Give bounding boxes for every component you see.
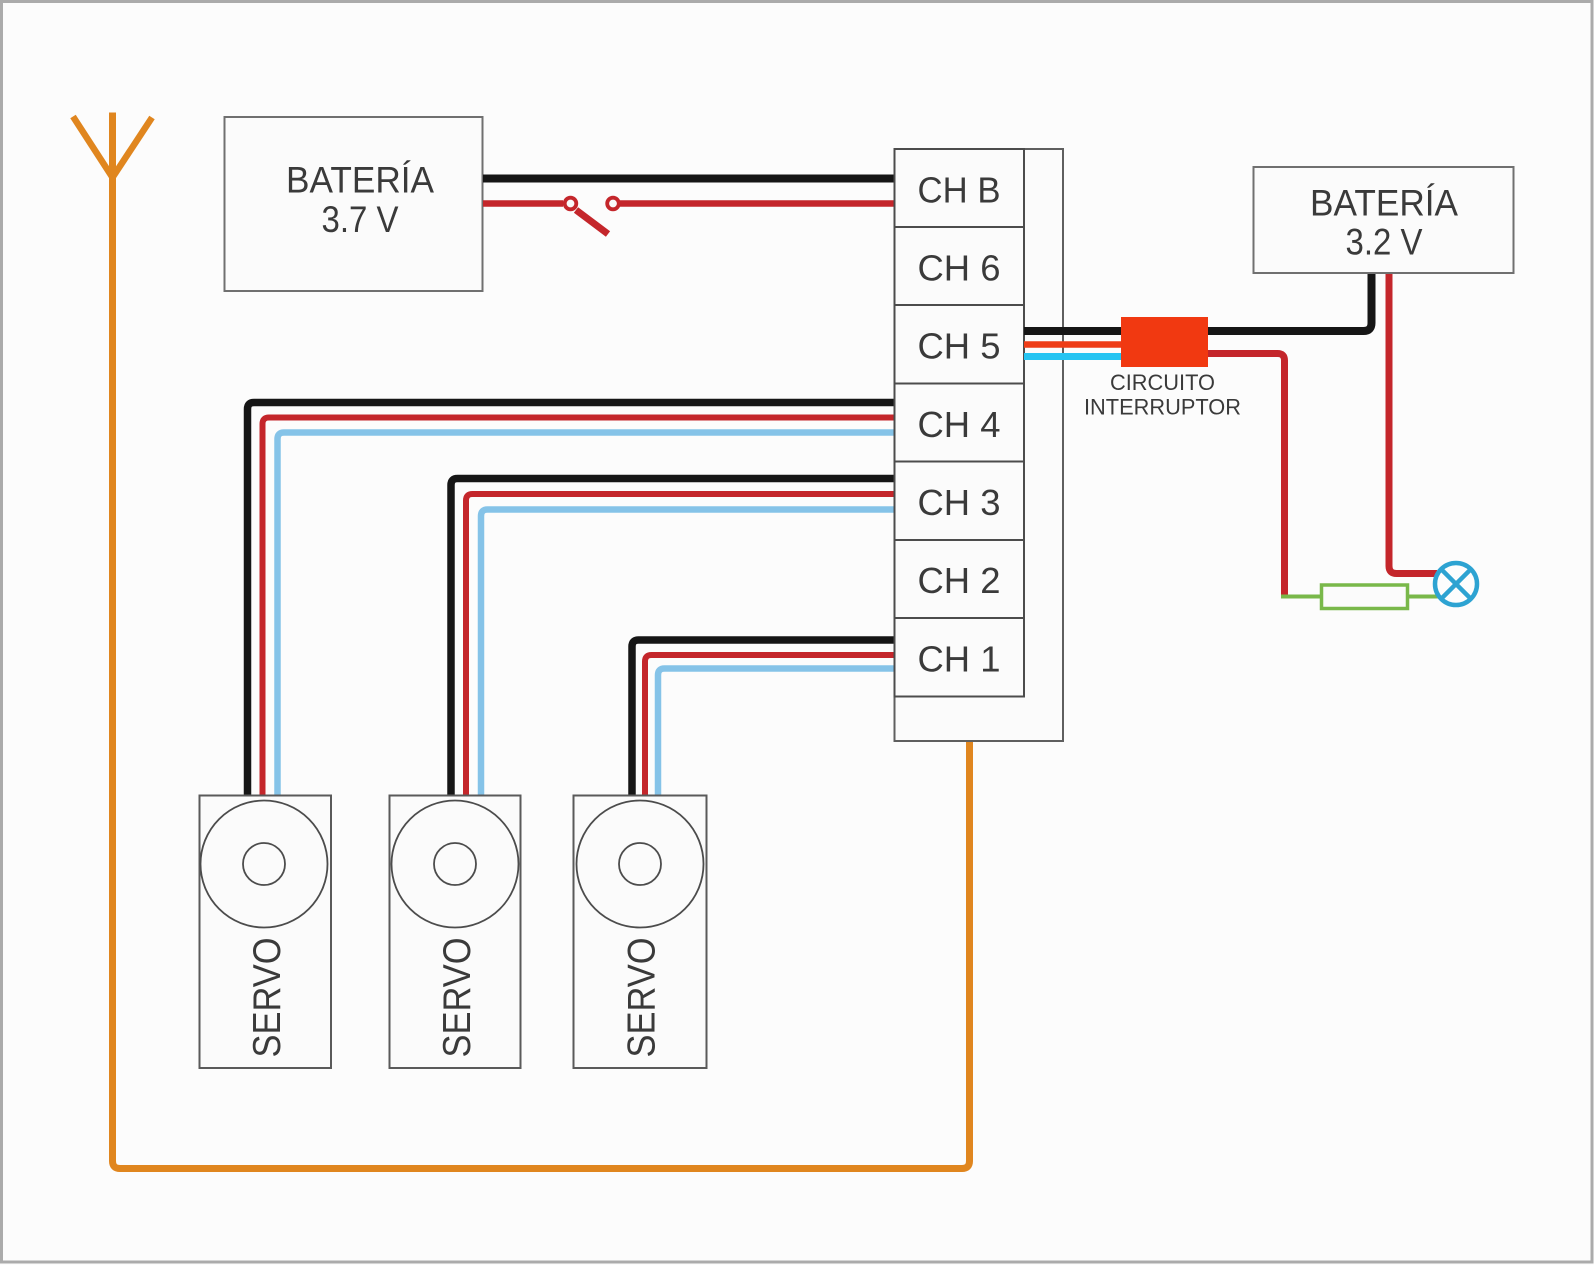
svg-text:SERVO: SERVO — [621, 938, 664, 1058]
wire battery 3.7V positive (red) to switch — [483, 200, 563, 207]
channel CH 5 — [895, 305, 1025, 384]
svg-text:CH 2: CH 2 — [918, 560, 1001, 601]
svg-text:SERVO: SERVO — [246, 938, 289, 1058]
receiver outer box — [895, 149, 1064, 741]
wire circuit breaker out (red) — [1208, 354, 1285, 598]
svg-text:CH 6: CH 6 — [918, 248, 1001, 289]
wire resistor left (green) — [1281, 595, 1322, 599]
wire resistor right (green) — [1408, 595, 1441, 599]
wire servo2 black to CH3 — [451, 479, 894, 800]
svg-text:3.7 V: 3.7 V — [322, 199, 399, 240]
wire CH5 black to battery 3.2V — [1024, 272, 1372, 331]
wire battery 3.2V positive (red) to lamp — [1389, 274, 1437, 574]
svg-text:CH 4: CH 4 — [918, 404, 1001, 445]
channel CH 6 — [895, 227, 1025, 305]
circuit breaker box U1 — [1084, 317, 1241, 420]
lamp L1 — [1435, 563, 1477, 605]
antenna — [73, 117, 152, 178]
svg-text:3.2 V: 3.2 V — [1346, 222, 1423, 263]
svg-text:CH 3: CH 3 — [918, 482, 1001, 523]
battery B1 3.7V box — [225, 117, 483, 291]
svg-text:INTERRUPTOR: INTERRUPTOR — [1084, 395, 1241, 420]
wire servo3 red to CH1 — [645, 655, 894, 799]
wire CH5 red to circuit breaker — [1024, 341, 1123, 348]
wire servo3 blue to CH1 — [658, 669, 894, 800]
svg-text:CH B: CH B — [918, 170, 1001, 211]
wire servo1 black to CH4 — [248, 403, 895, 800]
svg-text:BATERÍA: BATERÍA — [1310, 183, 1458, 224]
resistor R1 — [1322, 585, 1408, 609]
wire switch to CH B (red) — [620, 200, 894, 207]
wire servo1 red to CH4 — [263, 418, 895, 800]
channel CH B — [895, 149, 1025, 227]
channel CH 3 — [895, 462, 1025, 541]
battery B2 3.2V box — [1254, 167, 1514, 273]
svg-text:BATERÍA: BATERÍA — [286, 160, 434, 201]
channel CH 4 — [895, 384, 1025, 462]
wire servo1 blue to CH4 — [278, 433, 895, 800]
wire servo3 black to CH1 — [632, 640, 894, 799]
wire antenna feed (orange) — [113, 113, 970, 1169]
wire CH5 cyan to circuit breaker — [1024, 353, 1123, 360]
servo M1 box — [200, 796, 332, 1069]
servo M3 box — [574, 796, 707, 1069]
svg-text:CH 1: CH 1 — [918, 639, 1001, 680]
svg-text:CH 5: CH 5 — [918, 326, 1001, 367]
svg-text:CIRCUITO: CIRCUITO — [1110, 370, 1215, 395]
wire battery 3.7V negative (black) to CH B — [483, 175, 894, 183]
svg-text:SERVO: SERVO — [436, 938, 479, 1058]
switch S1 — [565, 198, 619, 234]
wire servo2 red to CH3 — [466, 494, 894, 799]
channel CH 1 — [895, 618, 1025, 697]
wire servo2 blue to CH3 — [481, 510, 894, 800]
channel CH 2 — [895, 540, 1025, 618]
servo M2 box — [390, 796, 521, 1069]
